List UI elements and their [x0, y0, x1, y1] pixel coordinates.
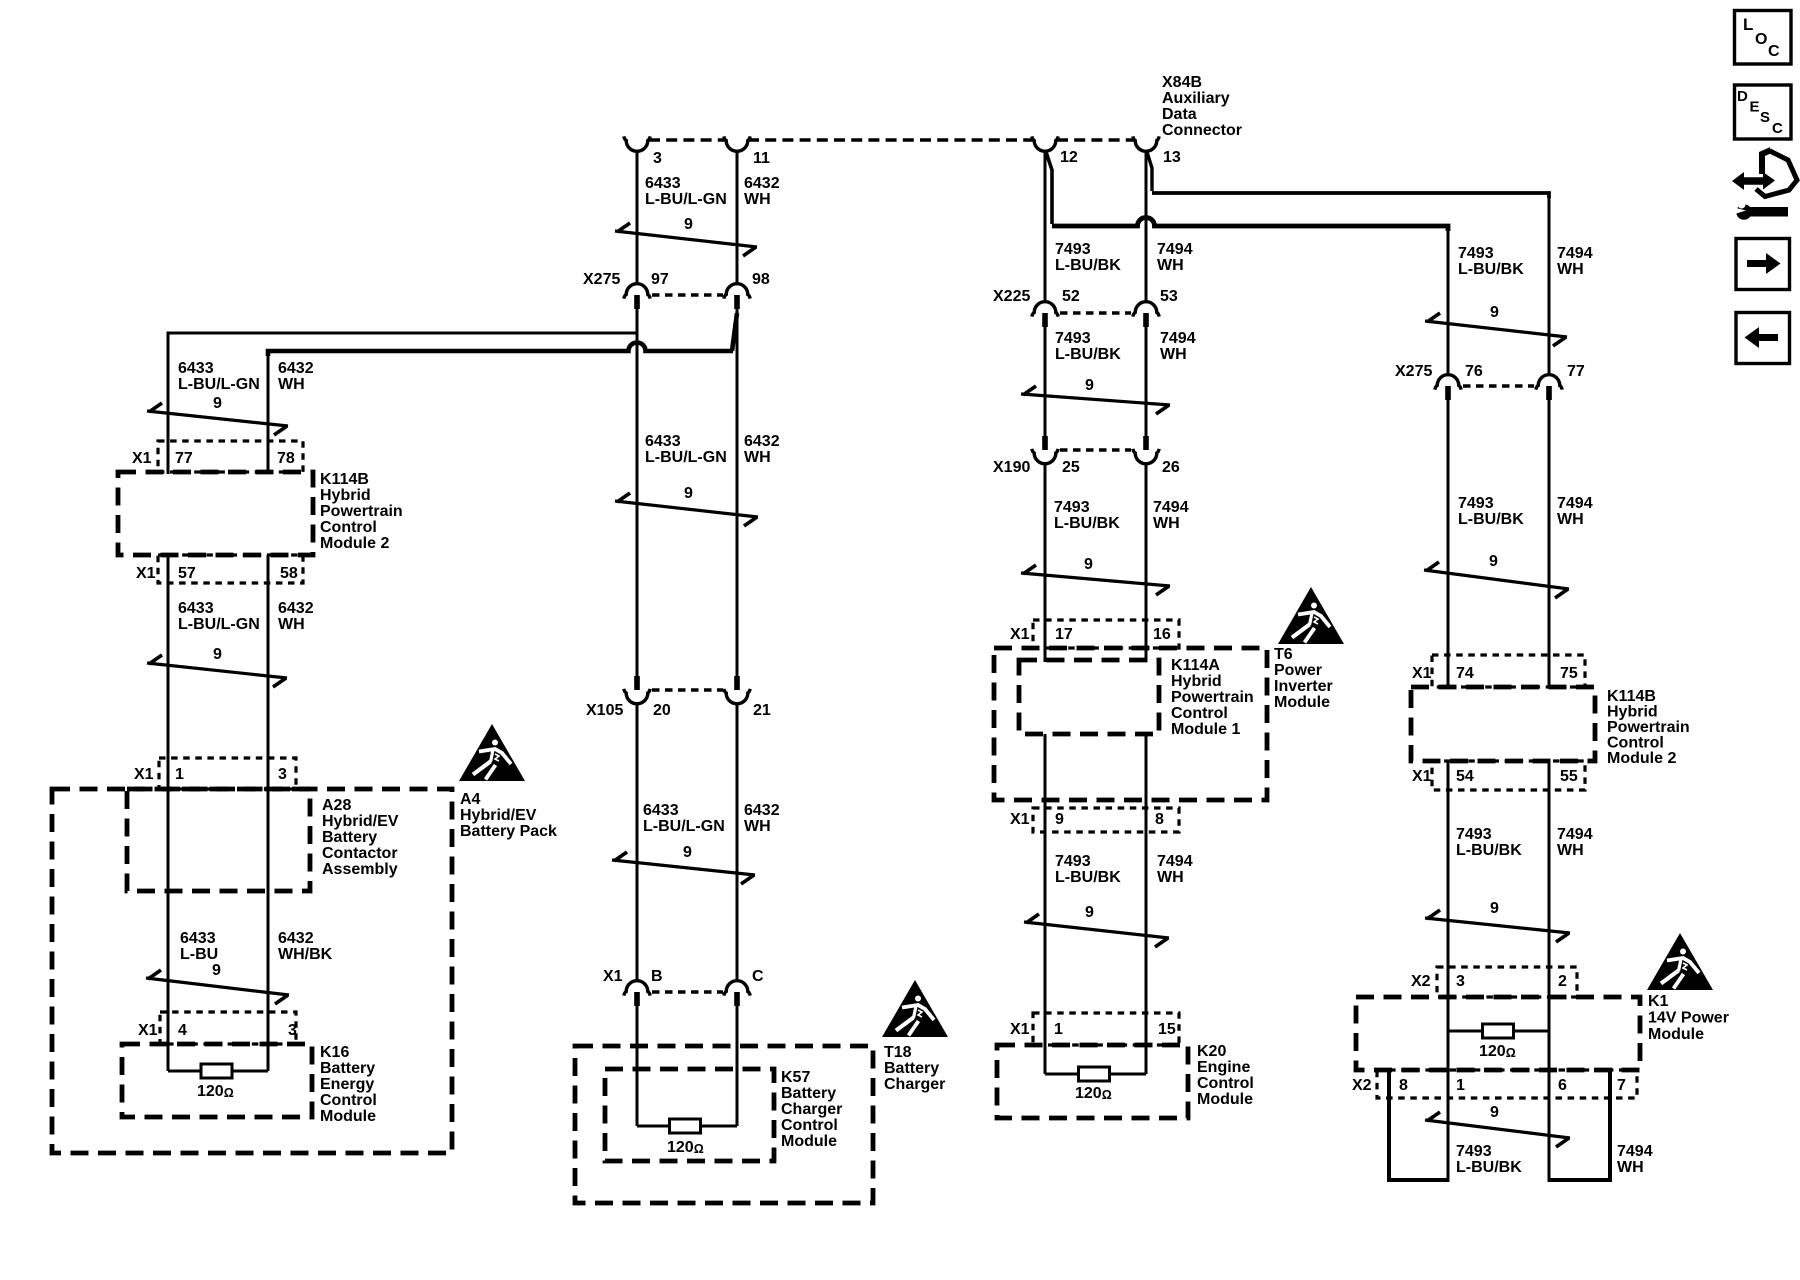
svg-text:Module 2: Module 2: [320, 535, 389, 552]
forward arrow legend box: [1736, 239, 1790, 290]
A28 pin 3 label: [278, 766, 287, 783]
connector X1 of K16 (pins 4/3): [138, 1012, 296, 1044]
svg-text:8: 8: [1155, 811, 1164, 828]
svg-text:14V Power: 14V Power: [1648, 1010, 1729, 1027]
K114A pin 17 label: [1055, 626, 1073, 643]
twisted pair symbol right mid: [1424, 553, 1569, 598]
svg-text:9: 9: [213, 646, 222, 663]
svg-text:X275: X275: [583, 271, 620, 288]
warning triangle T6: [1278, 587, 1344, 644]
svg-text:S: S: [1760, 109, 1770, 126]
wire 7493 down to X275 right: [1447, 228, 1450, 376]
T18 Battery Charger outline box: [575, 1046, 873, 1203]
wire label 6432 WH/BK (left lower): [278, 930, 333, 963]
X225 pin 52 terminal: [1032, 288, 1080, 327]
wire label 6433 L-BU/L-GN (center upper): [645, 433, 727, 466]
wire 6433 from X84B pin 3 down to X275: [636, 150, 639, 285]
pin 78 label: [277, 450, 295, 467]
warning triangle T18: [882, 980, 948, 1037]
wire label 7493 L-BU/BK (below pin 12): [1055, 241, 1121, 274]
svg-text:9: 9: [1055, 811, 1064, 828]
svg-text:X1: X1: [603, 968, 623, 985]
wire 7493 X225 to X190: [1044, 327, 1047, 436]
K16 pin 4 label: [178, 1022, 187, 1039]
svg-text:D: D: [1737, 88, 1748, 105]
svg-text:Hybrid: Hybrid: [1607, 704, 1658, 721]
wire 7493 K114B to K1: [1447, 761, 1450, 1182]
K1 pin 1 label: [1456, 1077, 1465, 1094]
wire 6433 X275 to X105: [636, 309, 639, 676]
svg-text:9: 9: [1085, 377, 1094, 394]
pin 57 label: [178, 565, 196, 582]
K1 pin 7 label: [1617, 1077, 1626, 1094]
K16 pin 3 label: [288, 1022, 297, 1039]
svg-text:C: C: [752, 968, 764, 985]
svg-text:Module: Module: [320, 1108, 376, 1125]
wire label 7493 L-BU/BK (right lower): [1456, 826, 1522, 859]
K20 pin 1 label: [1054, 1021, 1063, 1038]
svg-text:9: 9: [684, 485, 693, 502]
twisted pair symbol left mid: [147, 646, 287, 687]
svg-text:Charger: Charger: [781, 1101, 842, 1118]
X84B pin 13 terminal: [1133, 136, 1181, 166]
back arrow legend box: [1736, 313, 1790, 364]
svg-text:WH: WH: [1557, 261, 1584, 278]
svg-text:Hybrid/EV: Hybrid/EV: [322, 813, 399, 830]
pin 58 label: [280, 565, 298, 582]
wire 7494 branch from pin 13 to right column: [1147, 152, 1549, 198]
svg-text:7493: 7493: [1458, 495, 1494, 512]
svg-text:9: 9: [683, 844, 692, 861]
svg-text:53: 53: [1160, 288, 1178, 305]
loopback wire pin 6 to pin 7: [1549, 1070, 1610, 1180]
wire label 7493 L-BU/BK (K114A-K20): [1055, 853, 1121, 886]
X190 pin 26 terminal: [1133, 436, 1180, 476]
svg-text:WH: WH: [1557, 842, 1584, 859]
svg-text:7493: 7493: [1055, 853, 1091, 870]
connector X1 of K114B (pins 57/58): [136, 555, 303, 583]
K114A pin 8 label: [1155, 811, 1164, 828]
svg-text:Hybrid/EV: Hybrid/EV: [460, 807, 537, 824]
svg-text:L-BU/BK: L-BU/BK: [1055, 869, 1121, 886]
twisted pair symbol right top: [1425, 304, 1567, 346]
connector X1 of A28 (pins 1/3): [134, 758, 296, 789]
svg-text:K16: K16: [320, 1044, 349, 1061]
svg-text:WH: WH: [1153, 515, 1180, 532]
svg-text:9: 9: [1490, 900, 1499, 917]
svg-text:L-BU/BK: L-BU/BK: [1055, 346, 1121, 363]
svg-text:6432: 6432: [744, 433, 780, 450]
svg-text:120Ω: 120Ω: [1479, 1043, 1516, 1060]
module K114B Hybrid Powertrain Control Module 2 (right) box: [1411, 687, 1595, 761]
svg-text:Data: Data: [1162, 106, 1197, 123]
connector-repair tool icon: [1730, 150, 1797, 220]
svg-text:Battery: Battery: [884, 1060, 939, 1077]
svg-text:Module 1: Module 1: [1171, 721, 1240, 738]
svg-text:77: 77: [1567, 363, 1585, 380]
pin 55 label: [1560, 768, 1578, 785]
svg-text:L-BU/BK: L-BU/BK: [1458, 511, 1524, 528]
connector X84B label: [1162, 74, 1242, 139]
module K114B Hybrid Powertrain Control Module 2 (left) box: [118, 472, 313, 555]
twisted pair symbol K1 loopback: [1425, 1104, 1570, 1147]
svg-text:3: 3: [278, 766, 287, 783]
svg-text:20: 20: [653, 702, 671, 719]
svg-text:7494: 7494: [1157, 853, 1193, 870]
svg-text:Module: Module: [1274, 694, 1330, 711]
svg-text:58: 58: [280, 565, 298, 582]
wire 7494 K114B to K1: [1548, 761, 1551, 1182]
svg-text:25: 25: [1062, 459, 1080, 476]
svg-text:76: 76: [1465, 363, 1483, 380]
wire label 6432 WH (left mid): [278, 600, 314, 633]
wire 7494 X275 to K114B right: [1548, 400, 1551, 687]
K1 pin 2 label: [1558, 973, 1567, 990]
svg-text:X1: X1: [1010, 811, 1030, 828]
warning triangle K1: [1647, 933, 1713, 990]
twisted pair symbol left lower: [146, 962, 289, 1004]
svg-text:WH: WH: [744, 818, 771, 835]
svg-text:K1: K1: [1648, 993, 1669, 1010]
wire 6432 through A28 to K16: [267, 790, 270, 1071]
wire label 7494 WH (right lower): [1557, 826, 1593, 859]
svg-text:Control: Control: [320, 519, 377, 536]
connector X1 of K114B (pins 77/78): [132, 441, 303, 472]
svg-text:Contactor: Contactor: [322, 845, 398, 862]
svg-text:Control: Control: [781, 1117, 838, 1134]
wire label 7494 WH (right top): [1557, 245, 1593, 278]
module K16 Battery Energy Control Module box: [122, 1044, 312, 1117]
svg-text:Battery: Battery: [781, 1085, 836, 1102]
wire label 6433 L-BU/L-GN (left top): [178, 360, 260, 393]
svg-text:7494: 7494: [1557, 495, 1593, 512]
wire label 7494 WH (below pin 13): [1157, 241, 1193, 274]
svg-text:55: 55: [1560, 768, 1578, 785]
twisted pair symbol center upper: [615, 485, 758, 526]
connector X1 of K114B right (pins 54/55): [1412, 761, 1585, 790]
svg-text:WH: WH: [1160, 346, 1187, 363]
K20 label: [1197, 1043, 1254, 1108]
K16 label: [320, 1044, 377, 1125]
twisted pair symbol below X84B pins 3/11: [615, 216, 757, 256]
svg-text:52: 52: [1062, 288, 1080, 305]
wire 7494 down to X275 right: [1548, 195, 1551, 376]
svg-text:WH: WH: [744, 449, 771, 466]
wire 6432 branch to left column (with crossover hop): [268, 313, 737, 441]
svg-text:L-BU/L-GN: L-BU/L-GN: [643, 818, 725, 835]
module K20 Engine Control Module box: [997, 1045, 1188, 1118]
svg-text:X1: X1: [136, 565, 156, 582]
svg-text:X190: X190: [993, 459, 1030, 476]
svg-text:6432: 6432: [744, 802, 780, 819]
K114A pin 16 label: [1153, 626, 1171, 643]
svg-text:7493: 7493: [1055, 330, 1091, 347]
svg-text:6433: 6433: [643, 802, 679, 819]
svg-text:WH: WH: [744, 191, 771, 208]
wire 7494 stub from X84B pin 13: [1145, 150, 1148, 303]
svg-text:Module: Module: [1648, 1026, 1704, 1043]
module K1 14V Power Module box: [1356, 997, 1640, 1070]
svg-text:13: 13: [1163, 149, 1181, 166]
svg-text:Powertrain: Powertrain: [1607, 719, 1690, 736]
svg-text:1: 1: [175, 766, 184, 783]
svg-text:Energy: Energy: [320, 1076, 374, 1093]
svg-text:77: 77: [175, 450, 193, 467]
module K114A inner box: [1019, 660, 1159, 734]
svg-text:K114B: K114B: [320, 471, 369, 488]
svg-text:8: 8: [1399, 1077, 1408, 1094]
connector X1 of K114B right (pins 74/75): [1412, 655, 1585, 687]
svg-text:L-BU/BK: L-BU/BK: [1054, 515, 1120, 532]
svg-text:X1: X1: [1010, 626, 1030, 643]
terminating resistor in K20: [1045, 1067, 1146, 1081]
svg-text:6432: 6432: [278, 600, 314, 617]
svg-text:6433: 6433: [180, 930, 216, 947]
svg-text:T6: T6: [1274, 646, 1293, 663]
X225 pin 53 terminal: [1133, 288, 1178, 327]
connector X1 of K114A (pins 17/16): [1010, 620, 1179, 648]
svg-text:X2: X2: [1411, 973, 1431, 990]
svg-text:A4: A4: [460, 791, 481, 808]
resistor value 120 ohm (K1): [1479, 1043, 1516, 1060]
wire label 7494 WH (X225-X190): [1160, 330, 1196, 363]
svg-text:9: 9: [684, 216, 693, 233]
svg-text:L-BU/BK: L-BU/BK: [1456, 1159, 1522, 1176]
wire 6432 K114B to A28: [267, 555, 270, 790]
connector X1 of K57: [603, 968, 723, 992]
K114B right label: [1607, 688, 1690, 767]
wire 7494 into K114A upper: [1145, 648, 1148, 662]
svg-text:X1: X1: [138, 1022, 158, 1039]
in-line connector X275 (center): [583, 271, 723, 295]
wire label 6433 L-BU/L-GN (left mid): [178, 600, 260, 633]
K57 label: [781, 1069, 842, 1150]
svg-text:L: L: [1743, 15, 1753, 34]
svg-text:7494: 7494: [1557, 245, 1593, 262]
svg-text:Control: Control: [1607, 735, 1664, 752]
wire label 6432 WH (below X84B): [744, 175, 780, 208]
svg-text:X2: X2: [1352, 1077, 1372, 1094]
svg-text:7493: 7493: [1054, 499, 1090, 516]
svg-text:57: 57: [178, 565, 196, 582]
svg-text:1: 1: [1456, 1077, 1465, 1094]
wire 6432 X105 to K57: [736, 703, 739, 981]
svg-text:9: 9: [212, 962, 221, 979]
svg-text:WH: WH: [1157, 257, 1184, 274]
svg-text:L-BU/L-GN: L-BU/L-GN: [178, 616, 260, 633]
terminating resistor in K57: [637, 1119, 737, 1133]
in-line connector X225: [993, 288, 1131, 313]
svg-text:Assembly: Assembly: [322, 861, 398, 878]
X105 pin 20 terminal: [624, 676, 671, 719]
DESC legend box: [1735, 85, 1792, 139]
connector X2 of K1 (pins 8/1/6/7): [1352, 1070, 1637, 1098]
svg-text:Powertrain: Powertrain: [1171, 689, 1254, 706]
K114B left label: [320, 471, 403, 552]
wire 6432 X275 to X105: [736, 309, 739, 676]
svg-text:L-BU/BK: L-BU/BK: [1456, 842, 1522, 859]
wire 7493 X190 to K114A: [1044, 463, 1047, 660]
svg-text:A28: A28: [322, 797, 351, 814]
svg-text:120Ω: 120Ω: [667, 1139, 704, 1156]
X84B pin 12 terminal: [1032, 136, 1078, 166]
svg-text:9: 9: [1085, 904, 1094, 921]
svg-text:97: 97: [651, 271, 669, 288]
X275 pin 97 terminal: [624, 271, 669, 309]
wire 6433 X105 to K57: [636, 703, 639, 981]
wire label 7494 WH (X190-K114A): [1153, 499, 1189, 532]
wire 6433 K114B to A28: [167, 555, 170, 790]
svg-text:Control: Control: [1197, 1075, 1254, 1092]
svg-text:WH: WH: [1617, 1159, 1644, 1176]
wire 7494 X225 to X190: [1145, 327, 1148, 436]
svg-text:L-BU/L-GN: L-BU/L-GN: [645, 191, 727, 208]
K20 pin 15 label: [1158, 1021, 1176, 1038]
resistor value 120 ohm (K20): [1075, 1085, 1112, 1102]
wire 6432 into K114B pin 78: [267, 380, 270, 474]
svg-text:Battery: Battery: [320, 1060, 375, 1077]
twisted pair symbol center lower: [612, 844, 755, 884]
svg-text:X1: X1: [1412, 768, 1432, 785]
wire label 6432 WH (left top): [278, 360, 314, 393]
connector X1 of K20 (pins 1/15): [1010, 1013, 1179, 1045]
svg-text:Battery Pack: Battery Pack: [460, 823, 557, 840]
svg-text:6: 6: [1558, 1077, 1567, 1094]
svg-text:Hybrid: Hybrid: [1171, 673, 1222, 690]
warning triangle A4: [459, 724, 525, 781]
svg-text:6433: 6433: [178, 600, 214, 617]
pin 54 label: [1456, 768, 1474, 785]
K57 X1 pin B terminal: [624, 968, 663, 1006]
wire 7493 K114A to K20: [1044, 734, 1047, 1074]
svg-text:21: 21: [753, 702, 771, 719]
wire label 7493 L-BU/BK (X190-K114A): [1054, 499, 1120, 532]
svg-text:X1: X1: [1010, 1021, 1030, 1038]
svg-text:98: 98: [752, 271, 770, 288]
svg-text:X275: X275: [1395, 363, 1432, 380]
svg-text:X1: X1: [1412, 665, 1432, 682]
wire label 6433 L-BU (left lower): [180, 930, 218, 963]
svg-text:6432: 6432: [278, 930, 314, 947]
svg-text:Engine: Engine: [1197, 1059, 1250, 1076]
X84B pin 11 terminal: [724, 136, 770, 167]
svg-text:6433: 6433: [178, 360, 214, 377]
in-line connector X105: [586, 690, 723, 719]
svg-text:WH/BK: WH/BK: [278, 946, 333, 963]
svg-text:Auxiliary: Auxiliary: [1162, 90, 1230, 107]
svg-text:E: E: [1750, 99, 1760, 116]
svg-text:6433: 6433: [645, 175, 681, 192]
K57 X1 pin C terminal: [724, 968, 764, 1006]
svg-text:Connector: Connector: [1162, 122, 1242, 139]
wire 7494 X190 to K114A: [1145, 463, 1148, 660]
svg-text:C: C: [1768, 43, 1780, 60]
wire 6433 through A28 to K16: [167, 790, 170, 1071]
svg-text:K20: K20: [1197, 1043, 1226, 1060]
svg-text:74: 74: [1456, 665, 1474, 682]
wire label 6433 L-BU/L-GN (below X84B): [645, 175, 727, 208]
pin 75 label: [1560, 665, 1578, 682]
svg-text:L-BU/L-GN: L-BU/L-GN: [178, 376, 260, 393]
wire label 6433 L-BU/L-GN (center lower): [643, 802, 725, 835]
svg-text:Hybrid: Hybrid: [320, 487, 371, 504]
resistor value 120 ohm (K57): [667, 1139, 704, 1156]
wire 6433 branch to left column: [168, 333, 637, 441]
module K57 Battery Charger Control Module box: [605, 1069, 774, 1161]
twisted pair symbol X190-K114A: [1021, 556, 1170, 595]
svg-text:7493: 7493: [1456, 1143, 1492, 1160]
wire label 6432 WH (center upper): [744, 433, 780, 466]
svg-text:X1: X1: [134, 766, 154, 783]
svg-text:15: 15: [1158, 1021, 1176, 1038]
module A28 Hybrid/EV Battery Contactor Assembly box: [127, 789, 310, 891]
svg-text:X105: X105: [586, 702, 623, 719]
svg-text:7494: 7494: [1153, 499, 1189, 516]
twisted pair symbol K114A-K20: [1024, 904, 1169, 947]
svg-text:9: 9: [1489, 553, 1498, 570]
LOC legend box: [1735, 11, 1792, 65]
svg-text:7493: 7493: [1458, 245, 1494, 262]
svg-text:Module: Module: [1197, 1091, 1253, 1108]
svg-text:Inverter: Inverter: [1274, 678, 1333, 695]
wire label 7493 L-BU/BK (right top): [1458, 245, 1524, 278]
svg-text:L-BU/BK: L-BU/BK: [1055, 257, 1121, 274]
svg-text:WH: WH: [1157, 869, 1184, 886]
svg-text:9: 9: [1084, 556, 1093, 573]
svg-text:7493: 7493: [1456, 826, 1492, 843]
wire 7493 X275 to K114B right: [1447, 400, 1450, 687]
svg-text:Powertrain: Powertrain: [320, 503, 403, 520]
A4 label: [460, 791, 557, 840]
svg-text:16: 16: [1153, 626, 1171, 643]
connector X2 of K1 (pins 3/2): [1411, 967, 1577, 997]
loopback wire pin 1 to pin 8: [1389, 1070, 1448, 1180]
svg-text:7494: 7494: [1617, 1143, 1653, 1160]
wire label 7494 WH (K114A-K20): [1157, 853, 1193, 886]
in-line connector X275 (right): [1395, 363, 1534, 386]
svg-text:Charger: Charger: [884, 1076, 945, 1093]
svg-text:4: 4: [178, 1022, 187, 1039]
svg-text:WH: WH: [278, 376, 305, 393]
X190 pin 25 terminal: [1032, 436, 1080, 476]
svg-text:B: B: [651, 968, 663, 985]
svg-text:54: 54: [1456, 768, 1474, 785]
wire pin B into K57: [636, 1006, 639, 1126]
svg-text:120Ω: 120Ω: [1075, 1085, 1112, 1102]
X105 pin 21 terminal: [724, 676, 771, 719]
svg-text:X84B: X84B: [1162, 74, 1202, 91]
terminating resistor in K16: [168, 1064, 268, 1078]
svg-text:X1: X1: [132, 450, 152, 467]
wire label 6432 WH (center lower): [744, 802, 780, 835]
svg-text:9: 9: [213, 395, 222, 412]
svg-text:75: 75: [1560, 665, 1578, 682]
resistor value 120 ohm (K16): [197, 1083, 234, 1100]
K114A label: [1171, 657, 1254, 738]
svg-text:L-BU/BK: L-BU/BK: [1458, 261, 1524, 278]
K114A pin 9 label: [1055, 811, 1064, 828]
svg-text:6432: 6432: [744, 175, 780, 192]
svg-text:X225: X225: [993, 288, 1030, 305]
svg-text:K114B: K114B: [1607, 688, 1656, 705]
A28 pin 1 label: [175, 766, 184, 783]
in-line connector X190: [993, 450, 1131, 476]
svg-text:3: 3: [1456, 973, 1465, 990]
wire label 7493 L-BU/BK (X225-X190): [1055, 330, 1121, 363]
svg-text:7493: 7493: [1055, 241, 1091, 258]
wire 7494 K114A to K20: [1145, 734, 1148, 1074]
svg-text:12: 12: [1060, 149, 1078, 166]
